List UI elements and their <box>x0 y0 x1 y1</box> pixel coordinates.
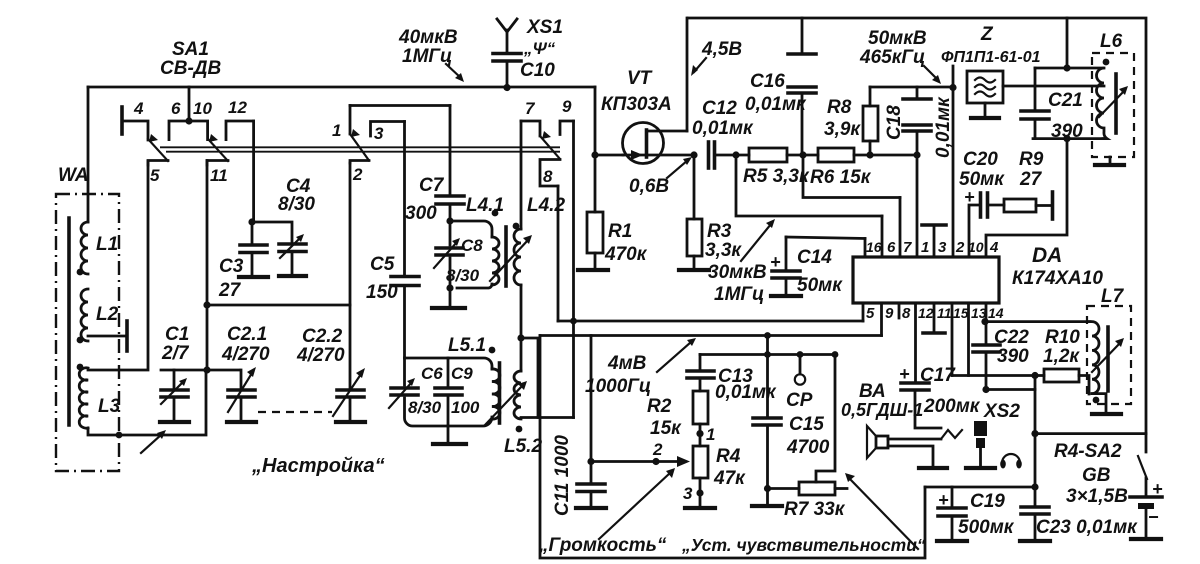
annotation arrow 40mkV <box>446 64 464 82</box>
svg-text:27: 27 <box>1019 169 1043 190</box>
svg-text:100: 100 <box>451 398 480 417</box>
node dot L4 bottom <box>446 284 453 291</box>
contact 3 bracket <box>371 122 405 144</box>
svg-text:1000Гц: 1000Гц <box>585 376 651 397</box>
coil L4.2 <box>514 195 565 285</box>
node dot wiper left <box>587 458 594 465</box>
capacitor C9 100 <box>435 358 480 426</box>
coil L6 box (dashed) <box>1092 53 1134 157</box>
wire C22 bottom to SA2 riser <box>986 388 1035 391</box>
svg-text:8/30: 8/30 <box>278 194 315 215</box>
svg-text:С6: С6 <box>421 364 443 383</box>
contact 1 <box>332 106 350 141</box>
resistor R9 27 <box>1004 149 1053 219</box>
svg-text:R5 3,3к: R5 3,3к <box>743 166 810 187</box>
node dot R10 left <box>1031 372 1038 379</box>
svg-text:1МГц: 1МГц <box>714 284 764 305</box>
svg-text:9: 9 <box>885 305 894 322</box>
svg-text:GB: GB <box>1082 465 1111 486</box>
variable capacitor C1 2/7 <box>160 324 190 422</box>
node dot source <box>690 151 697 158</box>
svg-text:4: 4 <box>133 99 144 118</box>
audio box border <box>540 336 925 559</box>
node dot R5/R6/C16 <box>799 151 806 158</box>
svg-text:4/270: 4/270 <box>296 345 345 366</box>
svg-text:„Ψ“: „Ψ“ <box>523 39 556 58</box>
svg-text:КП303А: КП303А <box>601 94 672 115</box>
switch lever 4-5 <box>148 134 168 161</box>
svg-text:Z: Z <box>980 24 994 45</box>
svg-text:„Настройка“: „Настройка“ <box>251 455 385 477</box>
capacitor C19 500mk <box>937 487 1015 541</box>
core adjust arrow L4 <box>490 235 532 281</box>
capacitor C12 0,01mk <box>692 98 754 168</box>
coil L6 <box>1097 68 1107 139</box>
wire contact1 feed <box>350 104 450 107</box>
wire pin14 to L7 <box>985 320 1090 323</box>
label Ust chuvstvitelnosti <box>681 535 926 555</box>
svg-text:2: 2 <box>955 239 965 256</box>
resistor R2 15k <box>647 391 708 446</box>
node dot on box edge <box>116 432 123 439</box>
wire C14 to pin16 <box>786 237 865 239</box>
label 0,6V <box>629 176 669 197</box>
supply rail to capacitors <box>925 486 1035 489</box>
svg-text:L7: L7 <box>1101 286 1125 307</box>
svg-text:8: 8 <box>902 305 911 322</box>
ground under L7 <box>1092 394 1121 414</box>
switch lever 7-8 <box>540 131 560 159</box>
pin 10 <box>968 239 984 255</box>
node dot tuning net <box>203 366 210 373</box>
switch SA2 lever <box>1138 456 1147 479</box>
core adjust arrow L6 <box>1099 86 1128 117</box>
resistor R6 15k <box>810 148 917 188</box>
svg-text:L3: L3 <box>98 396 121 417</box>
node dot L4.2 start <box>513 223 520 230</box>
svg-text:С12: С12 <box>702 98 737 119</box>
switch lever 10-11 <box>208 134 228 161</box>
svg-text:−: − <box>1148 507 1159 527</box>
capacitor C17 200mk <box>899 364 981 428</box>
node dot C10 <box>503 84 510 91</box>
coil L2 <box>81 289 119 341</box>
capacitor C16 0,01mk <box>745 18 816 155</box>
svg-text:С9: С9 <box>451 364 473 383</box>
node dot L4.1 start <box>492 210 499 217</box>
pin 3 <box>922 225 947 257</box>
variable capacitor C2.1 4/270 <box>221 324 270 422</box>
node dot C22 bottom <box>982 386 989 393</box>
svg-text:6: 6 <box>171 99 181 118</box>
antenna XS1 symbol <box>497 17 563 58</box>
wire SA2 riser <box>1034 376 1037 488</box>
svg-text:0,5ГДШ-1: 0,5ГДШ-1 <box>841 400 923 420</box>
node dot CP <box>797 351 804 358</box>
ground under L4 tank <box>432 288 465 308</box>
wire L2 tap to bar <box>88 321 127 351</box>
svg-text:XS1: XS1 <box>526 17 563 38</box>
wire contact 3 to C5 <box>403 122 406 277</box>
contact 6-10 bracket <box>169 99 212 140</box>
svg-text:3,9к: 3,9к <box>824 119 861 140</box>
svg-text:+: + <box>1152 479 1163 499</box>
label DA <box>1032 244 1062 267</box>
node dot L3 start <box>77 364 84 371</box>
jack XS2 plug <box>966 401 1020 468</box>
svg-text:+: + <box>770 252 781 272</box>
wire C12 node to pin6 <box>736 155 882 216</box>
node dot rail crossing <box>570 318 577 325</box>
svg-text:200мк: 200мк <box>923 396 981 417</box>
svg-text:К174ХА10: К174ХА10 <box>1012 268 1103 289</box>
node dot gate <box>591 151 598 158</box>
label 4mV 1000Hz <box>585 353 651 397</box>
svg-text:50мк: 50мк <box>797 275 843 296</box>
svg-text:500мк: 500мк <box>958 517 1015 538</box>
wire 11-net to contact2 net <box>207 304 350 307</box>
wire R8 top to filter input <box>870 86 953 89</box>
capacitor C22 390 <box>973 322 1029 390</box>
svg-text:0,01мк: 0,01мк <box>933 96 954 158</box>
node dot R4 bottom 3 <box>683 484 704 503</box>
wire L3 bottom rail <box>88 370 206 435</box>
svg-text:8: 8 <box>543 167 553 186</box>
contact 5 <box>148 161 168 186</box>
node dot pin14 <box>981 318 988 325</box>
svg-text:+: + <box>938 490 949 510</box>
node dot C15 bottom <box>764 485 771 492</box>
wire supply tap to detector tank <box>1066 18 1069 68</box>
label L5.1 <box>448 335 486 356</box>
svg-text:150: 150 <box>366 282 398 303</box>
wire pin13/15 to R10 <box>952 374 1035 377</box>
svg-text:0,6В: 0,6В <box>629 176 669 197</box>
svg-text:300: 300 <box>405 203 437 224</box>
audio rail H3 <box>700 353 835 356</box>
svg-text:С11 1000: С11 1000 <box>552 435 573 516</box>
node dot H2 riser <box>764 332 771 339</box>
label R4-SA2 <box>1054 441 1122 462</box>
wire to switch SA2 <box>1035 432 1146 435</box>
node dot L5.2 end <box>516 426 523 433</box>
svg-text:С3: С3 <box>219 256 244 277</box>
svg-text:16: 16 <box>866 239 882 255</box>
resistor R5 3,3k <box>743 148 818 187</box>
capacitor C10 <box>493 54 555 88</box>
node dot C12 out <box>732 151 739 158</box>
svg-text:11: 11 <box>937 305 952 321</box>
svg-text:С8: С8 <box>461 236 483 255</box>
node dot R2/R4 junction 1 <box>696 425 715 444</box>
node dot contact11 wire <box>203 301 210 308</box>
node dot L5.1 start <box>489 347 496 354</box>
wire L4.2 bottom down <box>520 285 523 338</box>
svg-text:4,5В: 4,5В <box>701 39 742 60</box>
svg-text:470к: 470к <box>604 244 648 265</box>
supply border wire <box>688 18 1146 452</box>
trimmer resistor R7 33k <box>784 355 847 521</box>
svg-text:14: 14 <box>988 305 1004 321</box>
svg-text:С2.1: С2.1 <box>227 324 267 345</box>
variable capacitor C2.2 4/270 <box>296 163 365 422</box>
svg-text:С16: С16 <box>750 71 785 92</box>
svg-text:R1: R1 <box>608 221 632 242</box>
node dot C18/pin1 <box>913 151 920 158</box>
coil L7 <box>1089 322 1099 394</box>
annotation arrow to C1 <box>141 430 166 453</box>
wire VT drain to supply corner <box>686 18 689 131</box>
wire tank bottom to pin4 <box>986 139 1067 257</box>
resistor R1 470k <box>578 155 648 270</box>
wire SA1 top feed <box>188 87 191 121</box>
label 50mkV 465kHz <box>859 28 927 68</box>
svg-text:С14: С14 <box>797 247 832 268</box>
svg-text:DA: DA <box>1032 244 1062 267</box>
label Gromkost <box>538 535 667 556</box>
L4 tank loop with trimmer C8 8/30 <box>434 221 492 288</box>
svg-text:11: 11 <box>210 166 228 185</box>
svg-text:С22: С22 <box>994 327 1029 348</box>
capacitor C3 27 <box>218 222 268 301</box>
svg-text:15: 15 <box>953 305 969 321</box>
pin 2 label <box>955 239 965 256</box>
svg-text:С21: С21 <box>1048 90 1083 111</box>
wire C15 to R7 <box>768 487 800 490</box>
resistor R10 1,2k <box>1035 327 1089 394</box>
svg-text:+: + <box>899 364 910 384</box>
node dot C15 rail <box>764 351 771 358</box>
bottom pin 15 <box>952 303 969 376</box>
node dot L6 start <box>1103 59 1110 66</box>
svg-text:С18: С18 <box>884 105 905 140</box>
pin 6 <box>882 216 896 257</box>
core L4 <box>504 227 508 286</box>
wire tank bottom rail <box>1033 137 1103 140</box>
capacitor C18 <box>884 87 931 155</box>
capacitor C7 300 <box>405 106 464 225</box>
coil L5.1 <box>492 369 500 419</box>
svg-text:3: 3 <box>683 484 693 503</box>
annotation arrow gromkost <box>599 468 675 539</box>
svg-text:1: 1 <box>332 121 341 140</box>
wire bypass to L5.2 bottom <box>521 338 538 418</box>
speaker BA 0,5GDSh-1 <box>841 381 947 468</box>
node dot tank top <box>1063 64 1070 71</box>
switch rail lower <box>166 151 560 153</box>
svg-text:390: 390 <box>997 346 1029 367</box>
bottom pin 14 <box>986 303 1004 322</box>
bottom pin 9 <box>882 303 895 336</box>
svg-text:3,3к: 3,3к <box>705 240 742 261</box>
contact 4 <box>122 99 148 140</box>
L5 tank loop box <box>405 358 493 426</box>
svg-text:С19: С19 <box>970 491 1005 512</box>
wire pin1 stub <box>916 155 919 257</box>
headphones icon <box>1000 454 1022 469</box>
svg-text:9: 9 <box>562 97 572 116</box>
svg-text:R8: R8 <box>827 97 852 118</box>
label WA <box>58 165 89 186</box>
svg-text:R2: R2 <box>647 396 672 417</box>
label CB-DV <box>160 58 221 79</box>
trimmer C6 8/30 on loop <box>389 364 443 417</box>
contact 8 bracket <box>540 160 560 187</box>
wire contact 12 down to C3/C4 <box>252 121 255 222</box>
coil L3 <box>79 368 120 428</box>
core L7 <box>1106 327 1110 391</box>
svg-text:4700: 4700 <box>786 437 830 458</box>
label 40mkV <box>398 27 458 67</box>
test point CP <box>786 355 813 412</box>
IC body <box>853 257 999 303</box>
annotation arrow 0,6V <box>667 157 692 178</box>
svg-text:R6 15к: R6 15к <box>810 167 872 188</box>
svg-text:465кГц: 465кГц <box>859 47 925 68</box>
capacitor C11 1000 <box>552 435 606 516</box>
node dot L4.2/L5.2 junction <box>517 334 524 341</box>
svg-text:С5: С5 <box>370 254 395 275</box>
annotation arrow 4,5V <box>691 58 706 76</box>
svg-text:4мВ: 4мВ <box>607 353 647 374</box>
capacitor C20 50mk <box>959 149 1005 257</box>
mechanical link dashed <box>258 411 332 413</box>
svg-text:0,01мк: 0,01мк <box>745 94 807 115</box>
svg-text:С17: С17 <box>920 365 956 386</box>
trimmer capacitor C4 8/30 <box>252 176 315 276</box>
resistor R8 3,9k <box>824 87 878 155</box>
pin 1 label <box>921 239 929 256</box>
svg-text:10: 10 <box>968 239 984 255</box>
wire L5.2 bottom net <box>521 416 574 419</box>
node dot L1 end <box>77 269 84 276</box>
filter Z FP1P1-61-01 <box>941 24 1041 118</box>
wiper wire with arrow <box>591 440 690 467</box>
label C8 value <box>446 236 483 285</box>
node dot L7 end <box>1093 397 1100 404</box>
antenna WA box (dash-dot) <box>56 194 119 471</box>
svg-text:VT: VT <box>627 68 653 89</box>
bottom pin 5 <box>863 303 875 322</box>
node dot C3/C4 junction <box>248 218 255 225</box>
node dot C23 top <box>1031 483 1038 490</box>
svg-text:„Громкость“: „Громкость“ <box>538 535 667 556</box>
coil L4.1 <box>466 195 504 285</box>
svg-text:С23 0,01мк: С23 0,01мк <box>1036 517 1138 538</box>
svg-text:С7: С7 <box>419 175 445 196</box>
battery GB 3x1,5V <box>1066 465 1163 539</box>
switch lever 1-2 <box>350 129 369 161</box>
svg-text:„Уст. чувствительности“: „Уст. чувствительности“ <box>681 535 926 555</box>
bottom pin 11 <box>923 303 952 333</box>
svg-text:50мкВ: 50мкВ <box>868 28 927 49</box>
wire antenna bus <box>88 86 595 89</box>
jack XS2 break contact <box>941 430 962 439</box>
svg-text:ВА: ВА <box>859 381 886 402</box>
wire tank top rail <box>1035 67 1103 70</box>
svg-text:L6: L6 <box>1100 31 1123 52</box>
wire contact 11 down <box>206 161 209 371</box>
svg-text:4/270: 4/270 <box>221 344 270 365</box>
svg-text:5: 5 <box>150 166 160 185</box>
label L7 <box>1101 286 1125 307</box>
svg-text:6: 6 <box>887 239 896 256</box>
core L5 <box>498 363 502 423</box>
annotation arrow 4mV <box>657 338 696 372</box>
coil L1 <box>81 87 118 274</box>
capacitor C23 0,01mk <box>1020 487 1138 541</box>
svg-text:С1: С1 <box>165 324 189 345</box>
capacitor C21 390 <box>1021 68 1083 142</box>
svg-text:ФП1П1-61-01: ФП1П1-61-01 <box>941 49 1041 66</box>
wire L3 top to contact 5 <box>88 161 148 370</box>
svg-text:WA: WA <box>58 165 89 186</box>
contact 2 <box>350 161 369 185</box>
switch rail upper <box>160 146 560 148</box>
svg-text:С10: С10 <box>520 60 555 81</box>
label K174XA10 <box>1012 268 1103 289</box>
node dot filter input <box>949 84 956 91</box>
pin 4 label <box>989 239 999 256</box>
svg-text:7: 7 <box>525 99 536 118</box>
svg-text:R7 33к: R7 33к <box>784 499 846 520</box>
svg-text:R4: R4 <box>716 446 741 467</box>
wire L4.2 top to contact 7 <box>520 121 523 229</box>
svg-text:3: 3 <box>938 239 947 256</box>
svg-text:R4-SA2: R4-SA2 <box>1054 441 1122 462</box>
node dot R7 wiper rail <box>832 351 839 358</box>
wire tuning node to C1 and C2.1 <box>161 369 239 372</box>
wire volume tap <box>590 336 593 462</box>
coil L5.2 <box>504 338 542 457</box>
svg-text:8/30: 8/30 <box>446 266 480 285</box>
svg-text:7: 7 <box>903 239 912 256</box>
capacitor 0,01mk pin2 <box>933 66 954 257</box>
svg-text:4: 4 <box>989 239 999 256</box>
svg-text:8/30: 8/30 <box>408 398 442 417</box>
svg-text:L1: L1 <box>96 234 118 255</box>
svg-text:L4.2: L4.2 <box>527 195 565 216</box>
wire C16 node to pin7 <box>803 155 900 198</box>
wire H2-H3 riser <box>766 336 769 355</box>
annotation arrow 30mkV <box>741 219 775 261</box>
bottom pin 13 <box>969 303 987 376</box>
bottom pin 8 <box>899 303 911 322</box>
node dot L2 end <box>77 337 84 344</box>
svg-text:СР: СР <box>786 390 813 411</box>
label 30mkV 1MHz <box>708 262 767 305</box>
svg-text:3: 3 <box>374 124 384 143</box>
svg-text:СВ-ДВ: СВ-ДВ <box>160 58 221 79</box>
audio rail H2 <box>540 334 882 337</box>
svg-text:1: 1 <box>706 425 715 444</box>
contact 12 bracket <box>226 98 254 140</box>
svg-text:L5.1: L5.1 <box>448 335 486 356</box>
core L6 <box>1114 74 1118 133</box>
wire filter output <box>1003 85 1104 88</box>
svg-text:XS2: XS2 <box>983 401 1020 422</box>
svg-text:0,01мк: 0,01мк <box>692 118 754 139</box>
svg-text:R10: R10 <box>1045 327 1080 348</box>
node dot SA2 riser tap <box>1031 430 1038 437</box>
resistor R3 3,3k <box>679 155 742 270</box>
capacitor C5 150 <box>366 254 419 358</box>
label L6 <box>1100 31 1123 52</box>
svg-text:2: 2 <box>352 165 363 184</box>
IF common rail H1 <box>558 320 863 323</box>
svg-text:5: 5 <box>866 305 875 322</box>
capacitor C14 50mk <box>770 237 843 296</box>
